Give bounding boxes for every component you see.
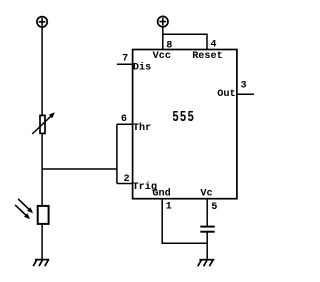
pin 6 stub (Thr) xyxy=(117,123,133,125)
pin 3 stub (Out) xyxy=(237,93,254,95)
wire V2 to pin 8 xyxy=(162,27,164,50)
op-amp U1 555 body xyxy=(133,50,237,199)
svg-text:5: 5 xyxy=(211,202,217,213)
svg-text:Gnd: Gnd xyxy=(152,188,170,200)
wire R1 bottom to LDR top xyxy=(41,133,43,206)
wire bracket Thr-Trig xyxy=(116,124,118,183)
wire pin 8 to pin 4 (Reset) xyxy=(163,34,207,49)
svg-text:Vc: Vc xyxy=(200,189,212,200)
svg-text:4: 4 xyxy=(210,40,216,51)
capacitor C1 xyxy=(200,227,214,232)
ground GND2 xyxy=(198,260,215,267)
svg-text:Out: Out xyxy=(217,89,235,100)
pin 2 stub (Trig) xyxy=(117,183,133,185)
potentiometer arrow xyxy=(32,112,55,134)
supply V1 (+) top-left xyxy=(37,17,47,27)
U1 value 555 xyxy=(172,109,195,126)
svg-text:7: 7 xyxy=(122,54,128,65)
resistor R1 (potentiometer body) xyxy=(40,115,45,133)
svg-text:555: 555 xyxy=(172,109,195,126)
wire capacitor to ground xyxy=(206,232,208,260)
wire node to Thr/Trig bracket xyxy=(42,168,117,170)
svg-text:6: 6 xyxy=(121,114,127,125)
supply V2 (+) top xyxy=(158,16,168,26)
wire V1 to R1 top xyxy=(41,27,43,115)
wire pin 5 to capacitor top xyxy=(206,199,208,227)
wire pin 1 to capacitor bottom xyxy=(162,199,207,244)
ground GND1 xyxy=(33,260,49,267)
pin 7 stub (Dis) xyxy=(117,63,133,65)
svg-text:Dis: Dis xyxy=(133,62,151,74)
light arrow 1 xyxy=(18,199,33,213)
photoresistor LDR body xyxy=(38,206,49,224)
svg-text:Vcc: Vcc xyxy=(153,51,171,62)
svg-text:Thr: Thr xyxy=(133,122,151,134)
light arrow 2 xyxy=(15,205,30,219)
svg-text:1: 1 xyxy=(166,202,172,213)
wire LDR bottom to ground xyxy=(41,224,43,260)
svg-text:2: 2 xyxy=(123,174,129,185)
svg-text:3: 3 xyxy=(241,80,247,91)
svg-text:Reset: Reset xyxy=(192,51,223,62)
